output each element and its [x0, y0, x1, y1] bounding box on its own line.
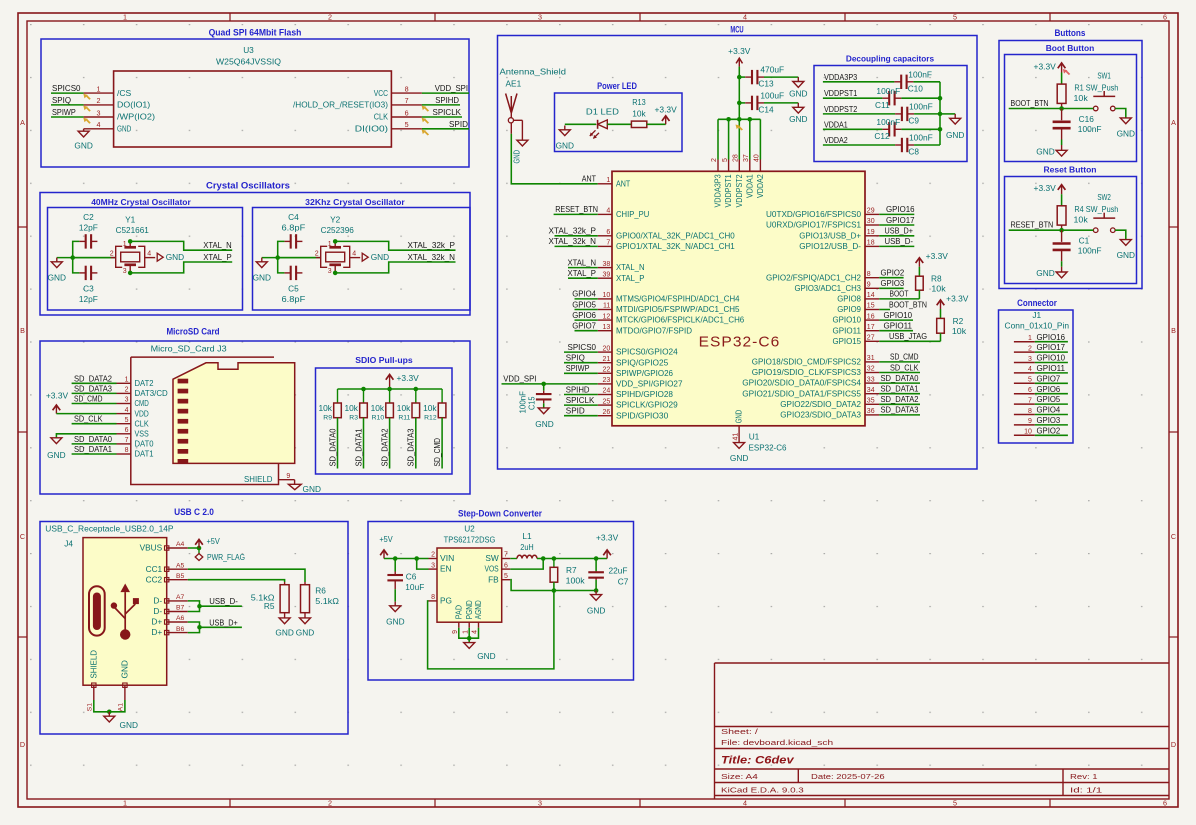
junction: [333, 239, 338, 244]
svg-text:AE1: AE1: [506, 79, 522, 89]
wire SD_DATA2: [72, 382, 117, 384]
svg-text:GPIO15: GPIO15: [833, 336, 862, 346]
wire EN riser: [417, 559, 429, 570]
svg-text:RESET_BTN: RESET_BTN: [1011, 220, 1054, 230]
svg-text:GPIO3: GPIO3: [1037, 415, 1061, 425]
svg-text:SPIWP: SPIWP: [52, 107, 76, 117]
svg-text:R9: R9: [323, 415, 332, 422]
svg-text:1: 1: [1028, 335, 1032, 342]
svg-text:17: 17: [867, 324, 875, 331]
svg-text:10k: 10k: [632, 108, 646, 118]
svg-text:U2: U2: [464, 524, 475, 534]
svg-text:U0RXD/GPIO17/FSPICS1: U0RXD/GPIO17/FSPICS1: [766, 220, 861, 230]
svg-text:CLK: CLK: [374, 112, 389, 122]
svg-text:7: 7: [125, 437, 129, 444]
svg-text:38: 38: [603, 261, 611, 268]
svg-text:VCC: VCC: [374, 88, 388, 98]
svg-text:28: 28: [733, 154, 740, 162]
svg-text:R4 SW_Push: R4 SW_Push: [1074, 204, 1118, 214]
svg-text:6: 6: [606, 229, 610, 236]
ground: [253, 258, 271, 283]
wire SD_DATA2 pulldown: [389, 418, 391, 469]
wire SPID: [422, 128, 469, 130]
svg-text:31: 31: [867, 355, 875, 362]
junction: [107, 710, 112, 715]
svg-text:ESP32-C6: ESP32-C6: [699, 335, 781, 351]
svg-text:/WP(IO2): /WP(IO2): [117, 112, 155, 122]
svg-text:4: 4: [1028, 366, 1032, 373]
svg-text:SD_DATA1: SD_DATA1: [881, 384, 919, 394]
svg-text:SHIELD: SHIELD: [88, 650, 98, 679]
junction: [70, 255, 75, 260]
wire GPIO10: [879, 319, 913, 321]
capacitor C3 12pF: [79, 266, 98, 304]
svg-text:SPICS0: SPICS0: [52, 83, 81, 93]
svg-text:5.1kΩ: 5.1kΩ: [315, 596, 339, 606]
label SPIWP: [566, 363, 590, 373]
junction: [333, 271, 338, 276]
svg-text:C12: C12: [874, 131, 890, 141]
resistor R2 10k pull-up: [937, 293, 969, 336]
svg-text:R12: R12: [424, 415, 437, 422]
svg-text:SD_DATA3: SD_DATA3: [881, 405, 919, 415]
svg-text:VDDA3P3: VDDA3P3: [713, 174, 723, 208]
J1 pin 9: [1014, 418, 1035, 425]
J4 bottom pins SHIELD S1 / GND A1: [87, 650, 130, 711]
svg-text:Buttons: Buttons: [1055, 28, 1086, 38]
ground R6: [296, 618, 314, 638]
svg-text:6: 6: [125, 427, 129, 434]
svg-text:3: 3: [328, 268, 332, 275]
svg-text:C: C: [20, 532, 25, 541]
svg-text:Connector: Connector: [1017, 298, 1057, 308]
svg-text:SD_CMD: SD_CMD: [890, 352, 919, 362]
label GPIO17 connector: [1037, 342, 1066, 352]
svg-text:DI(IO0): DI(IO0): [355, 124, 389, 134]
resistor R11 10k: [397, 389, 420, 422]
wire USB_D-: [200, 605, 242, 607]
svg-text:D+: D+: [151, 627, 162, 637]
section box Quad SPI 64Mbit Flash: [41, 28, 469, 168]
svg-text:VDDPST1: VDDPST1: [824, 88, 858, 98]
label GPIO2: [881, 268, 905, 278]
label XTAL_32k_P: [408, 240, 456, 250]
power flag PWR_FLAG: [195, 548, 245, 562]
svg-text:MicroSD Card: MicroSD Card: [166, 327, 219, 337]
svg-text:+3.3V: +3.3V: [728, 46, 751, 56]
svg-text:GND: GND: [477, 651, 495, 661]
svg-text:GND: GND: [371, 252, 389, 262]
svg-text:GPIO16: GPIO16: [886, 204, 915, 214]
svg-text:1: 1: [123, 241, 127, 248]
svg-text:3: 3: [431, 562, 435, 569]
label VDDA2: [824, 135, 848, 145]
svg-text:C13: C13: [758, 79, 774, 89]
ground U2: [464, 643, 496, 661]
svg-text:DAT3/CD: DAT3/CD: [135, 388, 168, 398]
svg-text:XTAL_32k_N: XTAL_32k_N: [408, 252, 456, 262]
svg-text:SPIWP: SPIWP: [566, 363, 590, 373]
wire GPIO16: [879, 213, 914, 215]
label SPIHD: [435, 95, 459, 105]
svg-text:9: 9: [1028, 418, 1032, 425]
svg-text:GND: GND: [946, 130, 964, 140]
svg-text:R2: R2: [953, 316, 964, 326]
section box USB C 2.0: [40, 507, 348, 734]
wire SD_DATA3: [879, 414, 920, 416]
svg-text:1: 1: [125, 377, 129, 384]
section box Connector: [999, 298, 1074, 443]
label XTAL_P: [568, 268, 597, 278]
svg-text:1: 1: [123, 13, 127, 22]
label XTAL_N: [568, 257, 597, 267]
svg-text:SPIHD/GPIO28: SPIHD/GPIO28: [616, 389, 673, 399]
wire SD_DATA1 pulldown: [363, 418, 365, 469]
svg-text:6: 6: [504, 562, 508, 569]
wire GPIO4 connector: [1035, 414, 1068, 416]
svg-text:100nF: 100nF: [909, 133, 933, 143]
wire rail risers: [718, 119, 760, 159]
svg-text:XTAL_32k_P: XTAL_32k_P: [408, 240, 456, 250]
svg-text:9: 9: [867, 282, 871, 289]
svg-text:7: 7: [606, 240, 610, 247]
wire GPIO2 connector: [1035, 434, 1068, 436]
junction: [541, 556, 546, 561]
svg-text:GPIO5: GPIO5: [1037, 394, 1061, 404]
wire SD_DATA0: [879, 382, 920, 384]
wire PG loop: [428, 591, 554, 669]
svg-text:USB_JTAG: USB_JTAG: [889, 331, 927, 341]
svg-text:AGND: AGND: [473, 600, 483, 619]
svg-text:C521661: C521661: [116, 225, 150, 235]
capacitor C2 12pF: [79, 212, 98, 248]
resistor R3 10k: [345, 389, 368, 422]
svg-text:3: 3: [123, 268, 127, 275]
label RESET_BTN: [1011, 220, 1054, 230]
svg-text:GND: GND: [730, 453, 748, 463]
svg-text:1: 1: [462, 630, 469, 634]
label SD_DATA0 (vertical): [327, 428, 337, 466]
power +3.3V BOOT_BTN: [1034, 61, 1066, 72]
label RESET_BTN: [555, 204, 598, 214]
svg-text:4: 4: [147, 250, 151, 257]
svg-text:FB: FB: [488, 574, 499, 584]
junction: [414, 387, 419, 392]
svg-text:BOOT_BTN: BOOT_BTN: [1011, 98, 1049, 108]
capacitor C12 100nF: [874, 117, 901, 141]
wire USB_D- pair: [188, 601, 200, 612]
ground R5: [275, 618, 293, 638]
wire SPICLK: [564, 404, 598, 406]
ERC markers U3 left pins: [83, 94, 91, 124]
svg-text:VDDPST2: VDDPST2: [824, 104, 858, 114]
J1 pin 6: [1014, 387, 1035, 394]
svg-text:BOOT: BOOT: [890, 289, 909, 299]
wire VDDA3P3: [823, 81, 895, 83]
svg-text:2: 2: [431, 552, 435, 559]
svg-text:GPIO9: GPIO9: [837, 304, 861, 314]
svg-text:Y2: Y2: [330, 214, 341, 224]
wire GPIO6 connector: [1035, 393, 1068, 395]
wire GPIO16 connector: [1035, 341, 1068, 343]
svg-text:24: 24: [603, 388, 611, 395]
label GPIO6 connector: [1037, 384, 1061, 394]
label SD_DATA0: [881, 373, 919, 383]
label USB_D+: [885, 226, 914, 236]
power +3.3V step-down: [596, 533, 619, 559]
wire GPIO10 connector: [1035, 362, 1068, 364]
svg-text:GPIO17: GPIO17: [1037, 342, 1066, 352]
svg-text:C6: C6: [406, 572, 417, 582]
label SD_DATA3: [881, 405, 919, 415]
svg-text:CC1: CC1: [146, 564, 163, 574]
wire SD_CMD: [879, 361, 920, 363]
svg-text:+3.3V: +3.3V: [946, 293, 969, 303]
wire VDDPST1: [823, 97, 883, 99]
wire to gnd bus: [914, 144, 940, 146]
wire SD_CLK: [879, 372, 920, 374]
wire GPIO17: [879, 224, 914, 226]
wire +3.3V rail SDIO: [338, 388, 443, 390]
wire to gnd bus: [913, 81, 940, 83]
svg-text:2uH: 2uH: [520, 542, 534, 552]
svg-text:GND: GND: [511, 150, 521, 164]
svg-text:GPIO2: GPIO2: [1037, 425, 1061, 435]
svg-text:C5: C5: [288, 284, 299, 294]
svg-text:+3.3V: +3.3V: [46, 391, 69, 401]
svg-text:+3.3V: +3.3V: [926, 251, 949, 261]
wire GPIO4: [575, 298, 598, 300]
svg-text:GND: GND: [253, 273, 271, 283]
junction: [275, 255, 280, 260]
svg-text:GND: GND: [1117, 128, 1135, 138]
J1 pin 8: [1014, 408, 1035, 415]
svg-text:L1: L1: [522, 531, 532, 541]
svg-text:7: 7: [504, 552, 508, 559]
label SD_DATA1 (vertical): [353, 428, 363, 466]
svg-text:GPIO4: GPIO4: [572, 289, 596, 299]
svg-text:Quad SPI 64Mbit Flash: Quad SPI 64Mbit Flash: [209, 28, 302, 38]
svg-text:19: 19: [867, 229, 875, 236]
svg-text:SPID/GPIO30: SPID/GPIO30: [616, 410, 669, 420]
svg-text:DAT2: DAT2: [135, 378, 154, 388]
svg-text:GND: GND: [119, 660, 129, 678]
svg-text:GPIO0/XTAL_32K_P/ADC1_CH0: GPIO0/XTAL_32K_P/ADC1_CH0: [616, 230, 735, 240]
svg-text:GPIO12/USB_D-: GPIO12/USB_D-: [799, 241, 861, 251]
antenna AE1 Antenna_Shield: [500, 67, 567, 141]
label USB_D+: [209, 617, 238, 627]
wire SD_DATA1: [879, 393, 920, 395]
label XTAL_N: [203, 240, 232, 250]
svg-text:11: 11: [603, 303, 610, 310]
svg-text:100nF: 100nF: [1078, 124, 1102, 134]
wire GPIO5 connector: [1035, 403, 1068, 405]
section box Crystal Oscillators: [40, 181, 470, 316]
junction: [938, 112, 943, 117]
svg-text:GPIO22/SDIO_DATA2: GPIO22/SDIO_DATA2: [780, 399, 861, 409]
svg-text:VBUS: VBUS: [140, 543, 163, 553]
wire SPICS0: [564, 351, 598, 353]
junction: [552, 556, 557, 561]
svg-text:4: 4: [743, 799, 747, 808]
svg-text:+3.3V: +3.3V: [1034, 183, 1057, 193]
label SD_DATA3: [74, 383, 112, 393]
svg-text:GPIO2/FSPIQ/ADC1_CH2: GPIO2/FSPIQ/ADC1_CH2: [766, 272, 861, 282]
svg-text:J1: J1: [1032, 310, 1041, 320]
svg-text:U1: U1: [749, 431, 760, 441]
ground J4: [104, 712, 138, 730]
wire shield-gnd join: [94, 700, 125, 712]
svg-text:VDDA1: VDDA1: [824, 119, 848, 129]
wire decoupling gnd bus: [939, 82, 941, 145]
svg-text:SPICLK/GPIO29: SPICLK/GPIO29: [616, 400, 678, 410]
label GPIO10: [884, 310, 913, 320]
junction: [387, 387, 392, 392]
svg-text:S1: S1: [87, 703, 94, 712]
MCU U1 ESP32-C6 body: [612, 171, 865, 425]
junction: [748, 117, 753, 122]
capacitor C13 470uF: [739, 65, 798, 89]
wire GPIO6: [575, 319, 598, 321]
capacitor C10 100nF: [894, 70, 932, 94]
svg-text:+3.3V: +3.3V: [397, 373, 420, 383]
U1 right pins: [742, 208, 879, 420]
svg-text:SHIELD: SHIELD: [244, 474, 273, 484]
svg-text:GND: GND: [47, 450, 65, 460]
svg-text:16: 16: [867, 313, 875, 320]
svg-text:Boot Button: Boot Button: [1046, 43, 1095, 53]
svg-text:+3.3V: +3.3V: [596, 533, 619, 543]
svg-text:4: 4: [125, 407, 129, 414]
label GPIO6: [572, 310, 596, 320]
svg-text:XTAL_N: XTAL_N: [616, 262, 645, 272]
svg-text:10k: 10k: [931, 284, 946, 294]
label SD_DATA2: [74, 373, 112, 383]
svg-text:100k: 100k: [566, 575, 586, 585]
svg-text:A5: A5: [176, 562, 185, 569]
wire SD_CMD: [72, 403, 117, 405]
svg-text:10k: 10k: [1074, 215, 1089, 225]
svg-text:DAT1: DAT1: [135, 449, 154, 459]
ground switch: [1117, 118, 1135, 138]
svg-text:SPIWP/GPIO26: SPIWP/GPIO26: [616, 368, 673, 378]
svg-text:R13: R13: [632, 97, 646, 107]
svg-text:B: B: [1171, 326, 1176, 335]
label SD_DATA3 (vertical): [406, 428, 416, 466]
junction: [737, 101, 742, 106]
svg-text:USB_D-: USB_D-: [209, 596, 238, 606]
svg-text:SD_DATA2: SD_DATA2: [881, 394, 919, 404]
J1 pin 3: [1014, 356, 1035, 363]
svg-text:XTAL_32k_P: XTAL_32k_P: [549, 226, 597, 236]
ground antenna shield: [511, 140, 528, 163]
svg-text:35: 35: [867, 398, 875, 405]
svg-text:Size: A4: Size: A4: [721, 772, 758, 781]
label GPIO5: [572, 299, 596, 309]
wire SW node: [537, 558, 607, 560]
ERC markers U3 right pins: [422, 106, 429, 136]
svg-text:ANT: ANT: [616, 178, 630, 188]
svg-text:SD_DATA3: SD_DATA3: [406, 428, 416, 466]
wire USB_D-: [879, 245, 914, 247]
svg-text:9: 9: [452, 630, 459, 634]
wire XTAL_N: [568, 267, 598, 269]
label SPICS0: [568, 342, 597, 352]
svg-text:ANT: ANT: [582, 174, 596, 184]
svg-text:9: 9: [286, 473, 290, 480]
svg-text:GPIO11: GPIO11: [884, 321, 913, 331]
J1 pin 2: [1014, 345, 1035, 352]
wire SD_DATA1: [72, 453, 117, 455]
svg-text:R7: R7: [566, 565, 577, 575]
resistor R8 10k pull-up: [916, 251, 949, 294]
wire SD_DATA2: [879, 403, 920, 405]
svg-text:GND: GND: [74, 141, 92, 151]
svg-text:GPIO16: GPIO16: [1037, 332, 1066, 342]
label SPID: [449, 119, 468, 129]
svg-text:10k: 10k: [423, 403, 437, 413]
section box Power LED: [555, 81, 683, 152]
power +3.3V J3 VDD: [46, 391, 69, 414]
svg-text:1: 1: [606, 177, 610, 184]
junction: [594, 588, 599, 593]
wire gnd rail: [262, 257, 321, 259]
svg-text:5: 5: [1028, 377, 1032, 384]
svg-text:A: A: [20, 118, 25, 127]
svg-text:SPIQ: SPIQ: [52, 95, 72, 105]
svg-text:GND: GND: [296, 628, 314, 638]
svg-text:GND: GND: [120, 720, 138, 730]
svg-text:GPIO6: GPIO6: [1037, 384, 1061, 394]
svg-text:SPICS0/GPIO24: SPICS0/GPIO24: [616, 347, 678, 357]
svg-text:XTAL_N: XTAL_N: [203, 240, 232, 250]
title block Title: C6dev: [721, 755, 795, 767]
ground U3 pin4: [74, 129, 92, 151]
label VDDPST2: [824, 104, 858, 114]
power +3.3V LED: [654, 104, 677, 124]
wire SPICS0: [51, 92, 84, 94]
resistor R9 10k: [319, 389, 342, 422]
svg-text:C11: C11: [875, 100, 890, 110]
svg-text:USB_C_Receptacle_USB2.0_14P: USB_C_Receptacle_USB2.0_14P: [45, 524, 174, 534]
label SPIQ: [52, 95, 72, 105]
svg-text:470uF: 470uF: [760, 65, 784, 75]
wire SPID: [564, 415, 598, 417]
section box Buttons: [999, 28, 1142, 289]
wire SPIQ: [51, 104, 84, 106]
svg-text:Step-Down Converter: Step-Down Converter: [458, 509, 542, 519]
svg-text:/HOLD_OR_/RESET(IO3): /HOLD_OR_/RESET(IO3): [293, 100, 388, 110]
label VDDA3P3: [824, 72, 858, 82]
svg-text:R5: R5: [264, 601, 275, 611]
section box 32Khz Crystal Oscillator: [253, 197, 471, 310]
svg-text:3: 3: [97, 108, 101, 117]
svg-text:Reset Button: Reset Button: [1043, 165, 1096, 175]
svg-text:12: 12: [603, 313, 611, 320]
svg-text:DO(IO1): DO(IO1): [117, 100, 150, 110]
wire XTAL_32k_N: [555, 245, 598, 247]
svg-text:Decoupling capacitors: Decoupling capacitors: [846, 54, 934, 64]
capacitor C5 6.8pF: [282, 266, 306, 304]
svg-text:Micro_SD_Card J3: Micro_SD_Card J3: [151, 344, 227, 354]
wire GPIO7: [575, 330, 598, 332]
capacitor C14 100uF: [739, 90, 798, 114]
svg-text:GPIO1/XTAL_32K_N/ADC1_CH1: GPIO1/XTAL_32K_N/ADC1_CH1: [616, 241, 735, 251]
section box Reset Button: [1005, 165, 1137, 284]
svg-text:32Khz Crystal Oscillator: 32Khz Crystal Oscillator: [305, 197, 405, 207]
svg-text:SW1: SW1: [1097, 70, 1111, 80]
label XTAL_32k_N: [408, 252, 456, 262]
